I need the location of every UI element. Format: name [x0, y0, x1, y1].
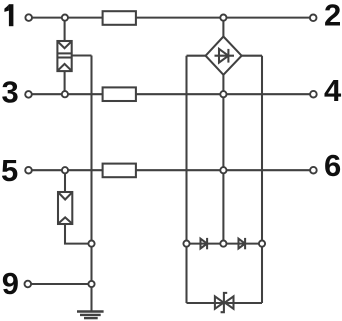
node junction ground line / GDT2	[88, 241, 94, 247]
wire bridge left wing	[187, 55, 206, 57]
node junction row3/GDT1	[62, 91, 68, 97]
node junction row6/centre bus	[220, 167, 226, 173]
wire row 5-6 left segment (terminal 5 to resistor R5)	[32, 169, 103, 171]
node junction row1/GDT1	[62, 15, 68, 21]
wire right vertical bus (bridge AC2 down to bottom loop)	[261, 56, 263, 303]
wire row 9 (terminal 9 to ground line)	[31, 283, 92, 285]
wire GDT2 top lead	[64, 170, 66, 192]
wire row 3-4 right segment (resistor R3 to terminal 4)	[136, 93, 310, 95]
terminal circle 9	[25, 281, 32, 288]
ground (earth symbol)	[77, 312, 104, 319]
wire bridge right wing	[242, 55, 262, 57]
svg-text:6: 6	[324, 148, 341, 183]
svg-text:9: 9	[2, 266, 19, 301]
wire row 1 right segment (resistor R1 to terminal 2)	[136, 17, 310, 19]
wire bridge bottom lead	[222, 75, 224, 94]
wire bridge top lead	[222, 18, 224, 37]
node junction row5/GDT2	[62, 167, 68, 173]
svg-text:2: 2	[324, 0, 341, 33]
node junction diode row centre	[220, 241, 226, 247]
diode inside bridge B1	[215, 49, 235, 63]
surge arrester F1 (3-electrode gas discharge tube)	[57, 41, 71, 71]
terminal label 1	[4, 4, 13, 26]
node junction diode row left	[183, 241, 189, 247]
wire GDT2 bottom lead	[65, 224, 92, 244]
wire centre vertical bus (node 4 to diode row)	[222, 94, 224, 243]
surge arrester F2 (2-electrode gas discharge tube)	[58, 192, 72, 224]
thyristor V1 (bidirectional diode / diac)	[215, 293, 234, 312]
resistor R1	[103, 11, 136, 25]
wire GDT1 centre tap horizontal	[72, 54, 92, 56]
node circles and terminal circles	[25, 14, 317, 287]
terminal circle 6	[310, 167, 317, 174]
wire GDT1 bottom lead	[64, 71, 66, 94]
node junction row1/bridge top	[220, 15, 226, 21]
rectifier bridge B1 (diamond)	[206, 37, 242, 75]
wire GDT1 top lead	[64, 18, 66, 41]
terminal circle 1	[25, 14, 32, 21]
terminal circle 4	[310, 91, 317, 98]
diode D1	[201, 238, 208, 249]
node junction row4/bridge bottom	[220, 91, 226, 97]
wire ground line vertical (GDT1 tap down to earth)	[90, 56, 92, 311]
svg-text:5: 5	[1, 153, 18, 188]
svg-text:4: 4	[324, 73, 342, 108]
diode D2	[239, 238, 246, 249]
terminal circle 3	[25, 91, 32, 98]
wire diode row horizontal	[187, 243, 263, 245]
terminal circle 5	[25, 167, 32, 174]
resistor R3	[103, 87, 136, 101]
terminal circle 2	[310, 14, 317, 21]
wire bottom loop horizontal	[187, 302, 263, 304]
wire row 5-6 right segment (resistor R5 to terminal 6)	[136, 169, 310, 171]
svg-text:3: 3	[2, 74, 19, 109]
node junction diode row right	[259, 241, 265, 247]
wire left vertical bus (bridge AC1 down to bottom loop)	[185, 56, 187, 303]
wire row 1 left segment (terminal 1 to resistor R1)	[32, 17, 103, 19]
node junction row9 / ground line	[88, 281, 94, 287]
wire row 3-4 left segment (terminal 3 to resistor R3)	[32, 93, 103, 95]
resistor R5	[103, 164, 136, 178]
